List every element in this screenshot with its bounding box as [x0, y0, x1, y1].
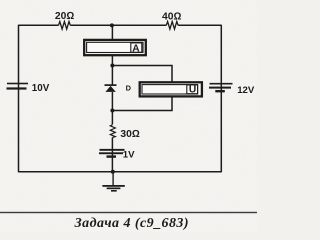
battery B1 10V	[7, 83, 29, 90]
parallel loop wire around diode	[112, 66, 172, 111]
battery B2 12V	[209, 83, 233, 93]
ammeter A1 box	[84, 40, 146, 55]
resistor R2 40ohm zigzag	[166, 22, 178, 30]
wire top-middle segment	[70, 24, 166, 26]
wire middle branch below diode	[111, 92, 113, 125]
diode D1 triangle	[105, 86, 115, 92]
resistor R3 30ohm vertical zigzag	[110, 125, 115, 138]
ground symbol	[102, 185, 124, 192]
svg-text:1V: 1V	[123, 149, 135, 160]
caption separator line	[0, 212, 257, 213]
svg-text:Задача 4 (с9_683): Задача 4 (с9_683)	[74, 216, 189, 231]
wire top-left segment	[19, 24, 59, 26]
wire middle branch below ammeter	[111, 56, 113, 86]
node junction bottom	[111, 170, 115, 174]
voltmeter V1 box	[140, 82, 202, 96]
svg-text:U: U	[189, 85, 196, 96]
svg-text:10V: 10V	[32, 83, 50, 94]
svg-text:30Ω: 30Ω	[120, 129, 139, 140]
svg-text:A: A	[132, 44, 140, 55]
wire top-right segment	[178, 24, 221, 26]
svg-text:D: D	[126, 84, 132, 93]
wire left side	[18, 25, 20, 173]
paper background	[0, 0, 257, 232]
resistor R1 20ohm zigzag	[59, 22, 71, 30]
svg-text:40Ω: 40Ω	[162, 11, 181, 22]
ground stem wire	[112, 172, 114, 186]
node junction below diode	[110, 109, 114, 113]
wire middle branch below resistor	[111, 138, 113, 172]
svg-text:20Ω: 20Ω	[55, 11, 74, 22]
wire bottom	[19, 171, 222, 173]
svg-text:12V: 12V	[237, 85, 255, 96]
node junction top	[110, 23, 114, 27]
node junction above diode	[110, 64, 114, 68]
battery B3 1V	[99, 149, 125, 158]
wire middle branch top	[111, 25, 113, 40]
wire right side	[220, 25, 222, 173]
diode D1 cathode bar	[105, 84, 117, 86]
